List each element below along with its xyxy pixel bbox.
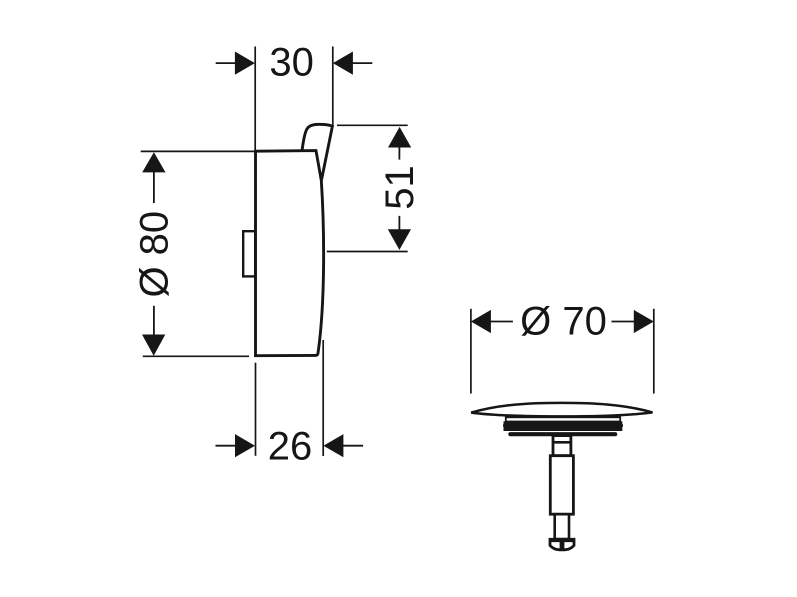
svg-text:26: 26 [268,425,313,469]
svg-text:Ø 80: Ø 80 [133,211,177,298]
svg-text:30: 30 [269,40,314,84]
svg-text:Ø 70: Ø 70 [520,300,607,344]
svg-text:51: 51 [378,165,422,210]
